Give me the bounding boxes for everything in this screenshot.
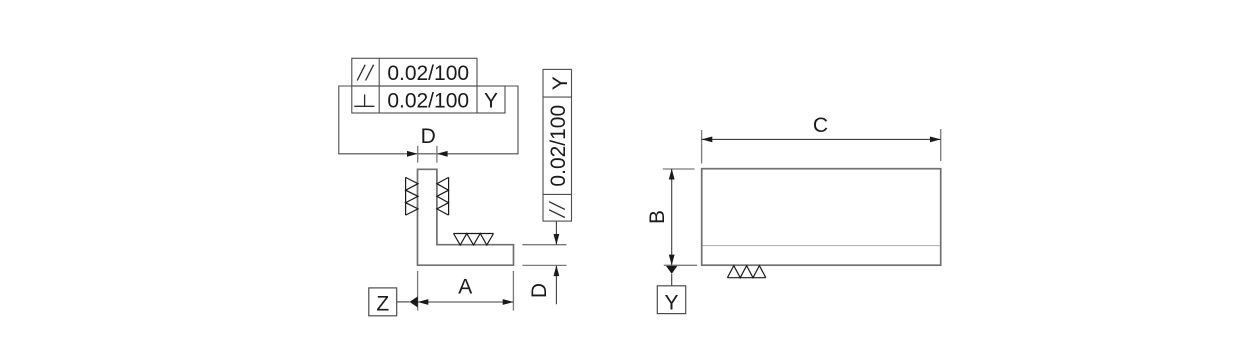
thickness dimension D line upper (leader from vertical frame)	[555, 221, 557, 245]
rectangular part outline (right view)	[702, 169, 941, 266]
dimension D extension ticks	[418, 146, 437, 163]
surface texture marks bottom of rectangular part	[727, 266, 765, 278]
svg-text:Y: Y	[549, 76, 572, 90]
parallelism symbol in vertical frame (rotated)	[549, 202, 565, 218]
vertical feature control frame parallelism 0.02/100 Y	[543, 69, 572, 221]
svg-text:0.02/100: 0.02/100	[387, 89, 469, 112]
svg-text:Z: Z	[376, 293, 389, 316]
datum Z box	[369, 288, 397, 316]
svg-text:D: D	[421, 125, 436, 148]
parallelism symbol in FCF1	[357, 65, 373, 81]
surface texture marks left side of vertical leg	[406, 177, 418, 215]
surface texture marks right side of vertical leg	[437, 177, 449, 215]
dimension B line	[671, 169, 673, 265]
datum Y triangle (right view)	[666, 266, 677, 274]
svg-text:C: C	[813, 114, 828, 137]
dimension B extension lines	[663, 169, 697, 265]
inner face line of rectangular part	[703, 245, 940, 247]
svg-text:0.02/100: 0.02/100	[547, 105, 570, 187]
datum Z leader	[397, 301, 410, 303]
svg-text:D: D	[528, 283, 551, 298]
thickness dimension D line lower	[555, 265, 557, 304]
dimension B arrowheads	[669, 169, 675, 265]
dimension A arrowheads	[418, 299, 514, 305]
svg-text:A: A	[458, 275, 472, 298]
feature control frame FCF2 perpendicularity 0.02/100 Y	[352, 86, 505, 113]
thickness dimension D arrowheads	[554, 234, 560, 276]
dimension C arrowheads	[702, 137, 941, 143]
svg-text:Y: Y	[484, 89, 498, 112]
dimension A extension lines	[418, 271, 514, 311]
thickness dimension D extension lines (right of L)	[522, 245, 566, 266]
dimension C extension lines	[702, 129, 941, 164]
datum Y leader	[671, 274, 673, 286]
datum Y box	[657, 286, 685, 314]
datum Z triangle	[410, 296, 418, 307]
surface texture marks top of horizontal leg	[454, 234, 494, 246]
feature control frame FCF1 parallelism 0.02/100	[352, 58, 477, 86]
dimension C line	[702, 138, 941, 140]
perpendicularity symbol in FCF2	[354, 94, 374, 106]
svg-text:0.02/100: 0.02/100	[387, 62, 469, 85]
L-shaped part outline	[418, 169, 514, 265]
dimension A line	[418, 301, 514, 303]
svg-text:Y: Y	[664, 292, 678, 315]
svg-text:B: B	[646, 210, 669, 224]
dimension D arrowheads	[407, 151, 448, 157]
leader box connecting frames to dimension D	[339, 86, 518, 154]
